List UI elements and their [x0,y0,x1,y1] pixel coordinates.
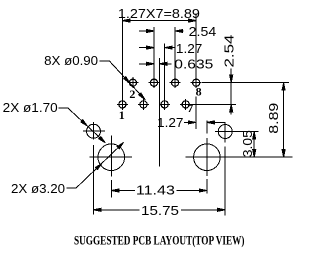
mounting hole small left (dia 1.70) [83,122,105,215]
extension line pad8 row right [202,82,289,84]
svg-text:1.27: 1.27 [176,41,203,56]
pad 1 [117,99,128,110]
dimension 1.27 horizontal [139,46,175,49]
extension line pad6 [174,27,176,77]
dimension 2.54 horizontal [139,30,184,33]
leader dia 0.90 [100,61,146,101]
svg-text:1: 1 [119,108,125,122]
extension line pad8 bottom [195,97,197,130]
svg-text:0.635: 0.635 [174,57,213,72]
svg-text:1.27: 1.27 [157,115,184,130]
svg-text:8: 8 [196,85,202,99]
svg-text:8.89: 8.89 [266,103,281,134]
extension line pad8 top [195,14,197,78]
extension line pad7 row right [191,103,236,105]
centerline [158,58,160,167]
leader dia 3.20 [66,141,124,188]
dimension 2.54 vertical [230,69,233,115]
leader dia 1.70 [58,108,106,144]
pad 5 [159,99,170,110]
dimension 15.75 line [93,208,225,211]
svg-text:8X ø0.90: 8X ø0.90 [44,53,98,68]
extension line pad5 [164,44,166,99]
pad 3 [138,99,149,110]
mounting hole small right (dia 1.70) [215,122,259,215]
dimension 3.05 vertical [253,132,256,158]
svg-text:1.27X7=8.89: 1.27X7=8.89 [118,6,200,21]
dimension 8.89 vertical [282,83,285,158]
svg-text:11.43: 11.43 [136,183,175,198]
svg-text:15.75: 15.75 [141,203,179,218]
dimension 0.635 horizontal [139,62,172,65]
svg-text:2.54: 2.54 [221,35,236,68]
svg-text:7: 7 [187,101,193,115]
extension line pad1 [121,17,123,99]
svg-text:3.05: 3.05 [240,130,255,157]
svg-text:2.54: 2.54 [189,24,217,39]
mounting hole large right (dia 3.20) [186,121,293,194]
svg-text:SUGGESTED PCB LAYOUT(TOP VIEW): SUGGESTED PCB LAYOUT(TOP VIEW) [74,233,245,248]
pad 6 [170,77,181,88]
extension line pad4 [153,27,155,77]
svg-text:2X ø1.70: 2X ø1.70 [3,100,58,115]
pad 4 [149,77,160,88]
dimension 11.43 line [111,189,207,192]
pad 2 [127,77,138,88]
mounting hole large left (dia 3.20) [90,136,133,198]
svg-text:2: 2 [129,87,135,101]
pad 7 [180,99,191,110]
dimension 1.27 bottom right [184,121,226,124]
pad 8 [191,77,202,88]
svg-text:2X ø3.20: 2X ø3.20 [11,181,65,196]
dimension 1.27X7=8.89 line [122,19,196,22]
